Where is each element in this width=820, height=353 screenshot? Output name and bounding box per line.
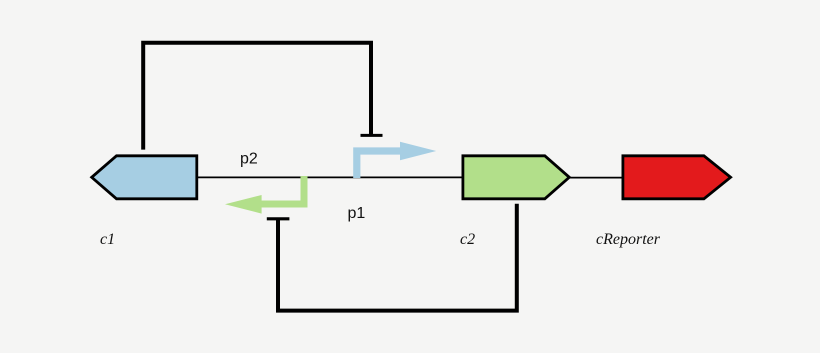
T-bar terminating repression of p2 <box>267 217 290 220</box>
svg-text:c2: c2 <box>460 231 475 248</box>
promoter p2 (green bent arrow, leftward) <box>225 176 304 214</box>
wire: DNA backbone segment between c1 and c2 <box>196 176 465 178</box>
gene c1 (blue CDS arrow, leftward) <box>92 156 197 199</box>
wire: repression arc from c2 under the bottom to p2 <box>278 204 517 311</box>
gene cReporter (red CDS arrow, rightward) <box>623 156 731 199</box>
T-bar terminating repression of p1 <box>361 134 383 137</box>
svg-text:cReporter: cReporter <box>596 231 661 248</box>
svg-text:p1: p1 <box>348 205 366 222</box>
svg-text:p2: p2 <box>240 151 258 168</box>
wire: repression arc from c1 over the top to p1 <box>143 43 371 150</box>
gene c2 (green CDS arrow, rightward) <box>463 156 569 199</box>
svg-text:c1: c1 <box>100 231 115 248</box>
wire: DNA backbone segment between c2 and cReporter <box>568 177 624 179</box>
promoter p1 (blue bent arrow, rightward) <box>357 142 436 178</box>
